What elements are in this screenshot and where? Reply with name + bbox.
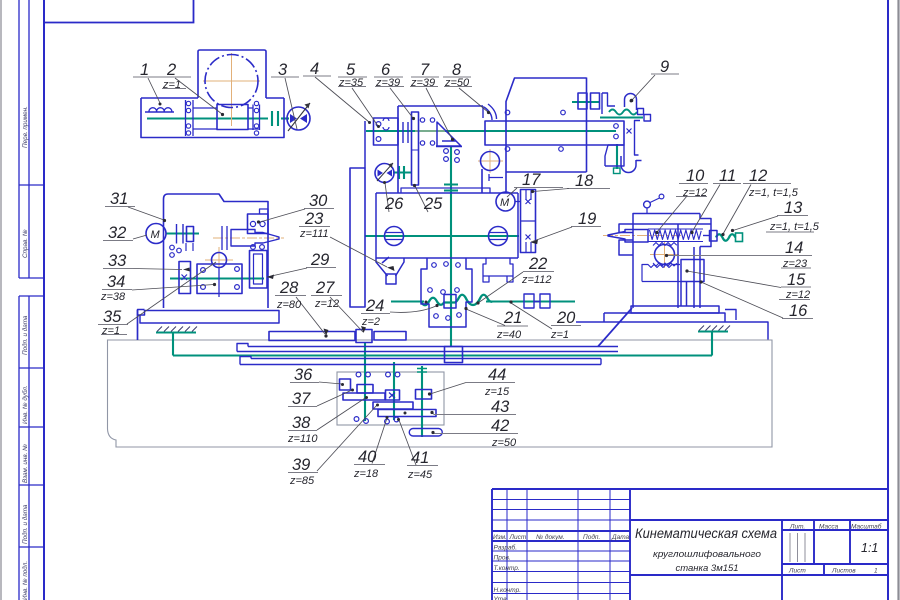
svg-text:36: 36 bbox=[294, 366, 313, 384]
leader 5 bbox=[352, 88, 378, 126]
svg-text:38: 38 bbox=[292, 414, 311, 432]
worm circle z=1 item35 bbox=[212, 253, 227, 268]
svg-text:23: 23 bbox=[304, 210, 324, 228]
vertical spindle axis line bbox=[218, 267, 220, 297]
svg-text:Лит.: Лит. bbox=[789, 524, 805, 531]
rack pinion square z=12 bbox=[356, 330, 372, 343]
svg-text:19: 19 bbox=[578, 210, 596, 228]
assembly1 big circle dash bbox=[205, 55, 258, 108]
leader 18 bbox=[533, 189, 569, 192]
worm rect z=2 bbox=[444, 295, 456, 309]
leader 34 bbox=[132, 285, 214, 291]
centerline tailstock pinole bbox=[603, 235, 681, 237]
upper right block item30 bbox=[248, 214, 269, 234]
screw nut left bbox=[385, 227, 404, 246]
tailstock ground line bbox=[698, 330, 728, 332]
svg-text:35: 35 bbox=[103, 308, 122, 326]
leader 28 bbox=[296, 297, 325, 334]
workhead spindle bbox=[231, 230, 279, 247]
leader 13 bbox=[733, 216, 778, 231]
gear 37 small bbox=[357, 385, 373, 394]
wire: wheelhead input shaft bbox=[366, 130, 616, 132]
leader 43 bbox=[432, 413, 434, 415]
svg-text:z=39: z=39 bbox=[410, 77, 435, 89]
wire: wheel pulley shaft bbox=[572, 101, 600, 103]
svg-text:Т.контр.: Т.контр. bbox=[494, 565, 520, 572]
svg-text:z=1: z=1 bbox=[550, 329, 569, 341]
frame left vertical bbox=[43, 0, 45, 600]
leader 3 bbox=[285, 78, 297, 129]
leader 19 bbox=[531, 227, 572, 242]
wire: pump26 shaft bbox=[393, 171, 411, 173]
J hook coolant bbox=[621, 156, 642, 173]
wire: gear group vertical 1 bbox=[364, 342, 366, 421]
bearing pair under motor shaft bbox=[170, 245, 175, 250]
svg-text:40: 40 bbox=[358, 448, 377, 466]
circle with centerlines below spindle bbox=[481, 152, 500, 171]
svg-text:13: 13 bbox=[784, 199, 803, 217]
leader 35 bbox=[127, 262, 216, 324]
svg-text:2: 2 bbox=[166, 61, 176, 79]
tailstock worm end square bbox=[736, 233, 743, 242]
assembly1 bearings bbox=[186, 101, 190, 105]
svg-text:1: 1 bbox=[140, 61, 149, 79]
item3 arrow through bbox=[288, 103, 310, 131]
svg-text:Лист: Лист bbox=[509, 534, 527, 541]
gear z=110 bar bbox=[343, 393, 385, 400]
spindle left crescent bbox=[483, 104, 497, 120]
gearbox body outline bbox=[376, 193, 518, 258]
svg-text:M: M bbox=[500, 197, 510, 209]
svg-text:12: 12 bbox=[749, 167, 767, 185]
leader 15 bbox=[687, 271, 781, 288]
svg-text:32: 32 bbox=[108, 224, 126, 242]
wire: table traverse line bbox=[173, 354, 712, 356]
leader 1 bbox=[148, 78, 160, 103]
svg-text:Инв. № подл.: Инв. № подл. bbox=[21, 561, 29, 600]
svg-text:z=39: z=39 bbox=[375, 77, 400, 89]
svg-text:11: 11 bbox=[719, 167, 736, 185]
leader 2 bbox=[175, 78, 222, 114]
grinding wheel wavy top bbox=[609, 110, 637, 115]
table block center bbox=[445, 347, 463, 363]
svg-text:Листов: Листов bbox=[831, 568, 856, 575]
workhead gear box bbox=[197, 264, 242, 294]
gear 36 square bbox=[340, 379, 351, 390]
leader 7 bbox=[426, 88, 452, 139]
centerline circle below spindle bbox=[478, 149, 503, 173]
svg-text:18: 18 bbox=[575, 172, 594, 190]
tall slide plate bbox=[350, 168, 365, 307]
workhead body outline bbox=[164, 194, 269, 308]
svg-text:z=18: z=18 bbox=[353, 468, 379, 480]
svg-text:Взам. инв. №: Взам. инв. № bbox=[22, 444, 29, 483]
leader 10 bbox=[657, 196, 687, 232]
svg-text:z=40: z=40 bbox=[496, 329, 522, 341]
centerline variator bbox=[415, 130, 445, 132]
coupling gear group v3 bbox=[417, 369, 427, 373]
right bracket of spindle bbox=[635, 121, 641, 156]
svg-text:1:1: 1:1 bbox=[861, 541, 878, 555]
assembly1 worm wheel rect z=1 bbox=[217, 105, 248, 130]
svg-text:z=12: z=12 bbox=[682, 187, 707, 199]
svg-text:Подп. и дата: Подп. и дата bbox=[21, 504, 29, 544]
wavy washer circle bbox=[655, 245, 675, 265]
bearing flags near cone bbox=[420, 118, 424, 122]
svg-text:z=45: z=45 bbox=[407, 469, 433, 481]
svg-text:Справ. №: Справ. № bbox=[22, 229, 29, 258]
V funnel z=111 bbox=[376, 257, 404, 276]
svg-text:z=112: z=112 bbox=[521, 274, 551, 286]
wheel right squares bbox=[638, 109, 644, 115]
tailstock base bbox=[631, 306, 719, 313]
svg-text:Кинематическая схема: Кинематическая схема bbox=[635, 526, 777, 541]
sheet edge right bbox=[897, 0, 899, 600]
svg-text:z=1: z=1 bbox=[162, 79, 181, 91]
leader 12 bbox=[723, 185, 751, 235]
wire: tailstock ground drop bbox=[711, 332, 713, 356]
svg-text:z=35: z=35 bbox=[338, 77, 364, 89]
belt column small bbox=[186, 243, 193, 251]
leader 27 bbox=[330, 297, 363, 332]
cover line with 26/25 labels bbox=[376, 192, 518, 194]
wire: worm line lower bbox=[391, 300, 424, 302]
lower pulley z=38 item33/34 bbox=[179, 262, 191, 294]
right quill sleeve bbox=[250, 251, 268, 289]
leader 37 bbox=[317, 390, 352, 406]
left margin stamp columns bbox=[19, 0, 44, 600]
svg-text:3: 3 bbox=[278, 61, 288, 79]
variator housing bbox=[398, 106, 483, 193]
svg-text:9: 9 bbox=[660, 58, 669, 76]
leader 24 bbox=[390, 306, 436, 312]
worm wave z=2 bbox=[421, 295, 492, 306]
screw nut right bbox=[489, 227, 508, 246]
coupling pump26 bbox=[399, 166, 404, 179]
wire: grinding wheel support line bbox=[600, 116, 643, 118]
leader 36 bbox=[319, 382, 342, 384]
leader 31 bbox=[128, 207, 164, 220]
leader 26 bbox=[385, 183, 389, 212]
svg-text:z=15: z=15 bbox=[484, 386, 510, 398]
svg-text:27: 27 bbox=[315, 279, 335, 297]
funnel square bbox=[386, 274, 396, 284]
wire: wheel spindle vertical bbox=[616, 144, 618, 169]
wire: workhead motor shaft bbox=[166, 232, 199, 234]
wire: worm line to coupling20 bbox=[486, 300, 575, 302]
svg-text:Инв. № дубл.: Инв. № дубл. bbox=[21, 385, 29, 424]
wire: workhead lower shaft bbox=[170, 277, 264, 279]
leader 4 bbox=[315, 77, 369, 122]
svg-text:Изм.: Изм. bbox=[493, 534, 507, 541]
pinole bullet bbox=[608, 230, 648, 243]
bracket above M motor bbox=[489, 174, 503, 181]
centerline tailstock washer circle bbox=[650, 241, 679, 268]
svg-text:z=1, t=1,5: z=1, t=1,5 bbox=[748, 187, 799, 199]
gear group box bbox=[337, 372, 444, 425]
gear lower long bar bbox=[378, 410, 436, 417]
M motor wheelhead item17 bbox=[496, 192, 515, 211]
tailstock body sides bbox=[633, 224, 711, 308]
top-left stamp box bbox=[44, 0, 194, 23]
leader 39 bbox=[317, 405, 377, 471]
leader arrows bbox=[183, 240, 538, 336]
leader 38 bbox=[317, 398, 366, 431]
svg-text:круглошлифовального: круглошлифовального bbox=[653, 549, 761, 559]
workhead left leg bbox=[137, 310, 139, 340]
svg-text:Масса: Масса bbox=[819, 524, 839, 531]
leader 9 bbox=[632, 75, 655, 100]
motor pulley pair bbox=[177, 224, 184, 244]
workhead ground hatch bbox=[157, 327, 197, 332]
centerline assembly1 circle bbox=[203, 53, 260, 126]
wire: workhead ground drop bbox=[172, 333, 174, 356]
frame right vertical bbox=[887, 0, 889, 600]
leader 20 bbox=[511, 303, 552, 329]
svg-text:24: 24 bbox=[365, 297, 384, 315]
svg-text:30: 30 bbox=[309, 192, 328, 210]
leader 29 bbox=[267, 268, 307, 277]
center gear cluster bbox=[421, 258, 472, 327]
svg-text:43: 43 bbox=[491, 398, 510, 416]
leader 32 bbox=[133, 235, 147, 239]
wire: gear group vertical 2 bbox=[393, 362, 395, 420]
svg-text:1: 1 bbox=[874, 568, 878, 575]
upper rack bar z=80 bbox=[269, 332, 355, 341]
svg-text:z=12: z=12 bbox=[785, 289, 810, 301]
leader 22 bbox=[478, 272, 523, 303]
coupling assembly1 bbox=[272, 111, 278, 126]
leader 8 bbox=[459, 88, 488, 112]
svg-text:z=111: z=111 bbox=[299, 228, 329, 240]
svg-text:z=2: z=2 bbox=[361, 316, 380, 328]
table end slant to tailstock bbox=[598, 308, 632, 347]
bearings under cone bbox=[444, 149, 449, 154]
svg-text:10: 10 bbox=[686, 167, 705, 185]
svg-text:z=50: z=50 bbox=[444, 77, 470, 89]
dresser dome item9 bbox=[625, 94, 637, 111]
gear z=85 bar bbox=[373, 402, 413, 409]
tailstock top box bbox=[619, 214, 711, 256]
svg-text:M: M bbox=[151, 229, 161, 241]
wire: shaft assembly1 bbox=[147, 117, 268, 119]
workhead base plate bbox=[138, 310, 280, 324]
assembly1 shaft upper line bbox=[193, 108, 259, 129]
svg-text:31: 31 bbox=[110, 190, 128, 208]
svg-text:z=1, t=1,5: z=1, t=1,5 bbox=[769, 221, 820, 233]
svg-text:Подп.: Подп. bbox=[583, 533, 600, 541]
workhead ground line bbox=[156, 331, 196, 333]
svg-text:z=12: z=12 bbox=[314, 298, 339, 310]
svg-text:16: 16 bbox=[789, 302, 808, 320]
left bearing box item4/5 bbox=[374, 118, 399, 145]
svg-text:42: 42 bbox=[491, 417, 509, 435]
wheelhead main body bbox=[506, 78, 587, 194]
svg-text:z=50: z=50 bbox=[491, 437, 517, 449]
svg-text:Подп. и дата: Подп. и дата bbox=[21, 315, 29, 355]
table channel lower bbox=[240, 357, 601, 365]
centerline workhead spindle bbox=[213, 237, 284, 239]
svg-text:Масштаб: Масштаб bbox=[851, 523, 882, 531]
M motor shaft bbox=[515, 201, 520, 203]
pill gear z=50 bbox=[409, 429, 442, 437]
svg-text:22: 22 bbox=[528, 255, 547, 273]
plate upper line bbox=[364, 121, 366, 168]
svg-text:№ докум.: № докум. bbox=[536, 533, 565, 541]
item3 inner triangles bbox=[290, 114, 307, 123]
assembly1 left bearing bracket bbox=[186, 100, 194, 136]
wire: gearbox screw shaft bbox=[365, 235, 519, 237]
grinding spindle body bbox=[485, 121, 624, 145]
spindle left collar bbox=[222, 226, 227, 250]
wheel guard bracket bbox=[602, 93, 615, 114]
svg-text:z=38: z=38 bbox=[100, 291, 126, 303]
leader 16 bbox=[701, 282, 783, 318]
gearbox bearings bbox=[201, 268, 206, 273]
gearbox cover notch bbox=[401, 188, 490, 193]
svg-text:17: 17 bbox=[522, 171, 541, 189]
лит sub-columns bbox=[790, 533, 805, 562]
leader 42 bbox=[432, 433, 433, 434]
lower gear block z=23/z=12 bbox=[642, 265, 681, 282]
svg-text:Лист: Лист bbox=[788, 568, 806, 575]
svg-text:Разраб.: Разраб. bbox=[494, 544, 518, 552]
wheel pulleys pair bbox=[578, 93, 587, 109]
leader 41 bbox=[399, 420, 416, 465]
handwheel lever bbox=[644, 201, 651, 208]
svg-text:28: 28 bbox=[279, 279, 299, 297]
belt pulley block item19 bbox=[521, 190, 536, 253]
svg-text:25: 25 bbox=[423, 195, 443, 213]
svg-text:34: 34 bbox=[107, 273, 125, 291]
coupling on vertical shaft bbox=[444, 185, 458, 191]
gearbox support feet bbox=[483, 258, 513, 282]
svg-text:Дата: Дата bbox=[611, 534, 630, 541]
svg-text:21: 21 bbox=[503, 309, 522, 327]
svg-text:z=85: z=85 bbox=[289, 475, 315, 487]
workhead M motor item32 bbox=[146, 224, 166, 244]
svg-text:z=80: z=80 bbox=[276, 299, 302, 311]
leader 17 bbox=[507, 188, 517, 197]
svg-text:z=1: z=1 bbox=[101, 325, 120, 337]
machine bed outline bbox=[108, 340, 773, 448]
pump/motor circle item3 bbox=[287, 107, 310, 130]
leader 33 bbox=[133, 269, 182, 270]
wire: shaft to pump3 bbox=[281, 117, 289, 119]
svg-text:Пров.: Пров. bbox=[494, 555, 511, 562]
svg-text:37: 37 bbox=[292, 390, 311, 408]
leader 6 bbox=[390, 88, 413, 118]
sheet edge left bbox=[0, 0, 2, 600]
svg-text:39: 39 bbox=[292, 456, 310, 474]
leader 40 bbox=[372, 418, 387, 464]
svg-text:41: 41 bbox=[411, 449, 429, 467]
leader 44 bbox=[430, 383, 466, 395]
svg-text:29: 29 bbox=[310, 251, 329, 269]
nut rect bbox=[710, 231, 718, 242]
svg-text:Утв.: Утв. bbox=[493, 596, 509, 600]
leader 11 bbox=[692, 185, 720, 233]
svg-text:Н.контр.: Н.контр. bbox=[494, 587, 522, 594]
svg-text:z=110: z=110 bbox=[287, 433, 318, 445]
svg-text:44: 44 bbox=[488, 366, 506, 384]
svg-text:33: 33 bbox=[108, 252, 127, 270]
cone pulley item7 bbox=[436, 122, 462, 147]
svg-text:Перв. примен.: Перв. примен. bbox=[22, 106, 29, 148]
wire: vertical belt shaft down from cone bbox=[450, 146, 452, 346]
support under spindle bbox=[605, 145, 624, 166]
leader 21 bbox=[466, 309, 505, 326]
leader dots bbox=[159, 99, 735, 434]
square end wheel vertical bbox=[614, 168, 621, 174]
svg-text:станка 3м151: станка 3м151 bbox=[675, 563, 738, 574]
gear 44 z=15 bbox=[416, 390, 432, 400]
group bearings top bbox=[356, 372, 361, 377]
group bearings bottom bbox=[354, 417, 359, 422]
assembly1 housing upper bbox=[198, 50, 266, 98]
clutch x rect bbox=[386, 390, 400, 400]
worm arcs z=1 input bbox=[145, 108, 174, 112]
assembly1 right bearing bracket bbox=[253, 105, 260, 131]
svg-text:4: 4 bbox=[310, 60, 319, 78]
x marks pulley block bbox=[526, 199, 531, 240]
coupling item20 bbox=[524, 294, 550, 308]
tailstock feed worm wave bbox=[716, 234, 736, 241]
centerline workhead circle bbox=[205, 247, 233, 273]
leader 30 bbox=[260, 209, 305, 222]
x mark spindle right bbox=[627, 129, 632, 134]
spindle bearings bbox=[505, 110, 510, 115]
table channel upper bbox=[237, 344, 618, 352]
bearing circles in box bbox=[376, 122, 381, 127]
svg-text:15: 15 bbox=[787, 271, 806, 289]
tall variator pulley item6 bbox=[412, 112, 419, 185]
leader 23 bbox=[330, 237, 387, 267]
svg-text:26: 26 bbox=[384, 195, 404, 213]
rod after spring bbox=[703, 235, 710, 237]
svg-text:z=23: z=23 bbox=[782, 258, 808, 270]
small pulley pair item5 bbox=[403, 122, 408, 143]
right rack bar bbox=[374, 332, 406, 341]
spring zigzag bbox=[648, 229, 703, 242]
leader 25 bbox=[415, 186, 428, 212]
pump circle item26 bbox=[375, 164, 394, 183]
tailstock ground hatch bbox=[699, 326, 730, 331]
wire: gear group vertical 3 bbox=[421, 366, 423, 437]
cluster bearings bbox=[432, 263, 437, 268]
assembly1 housing lower bbox=[141, 98, 284, 138]
svg-text:14: 14 bbox=[785, 239, 803, 257]
svg-text:20: 20 bbox=[556, 309, 576, 327]
